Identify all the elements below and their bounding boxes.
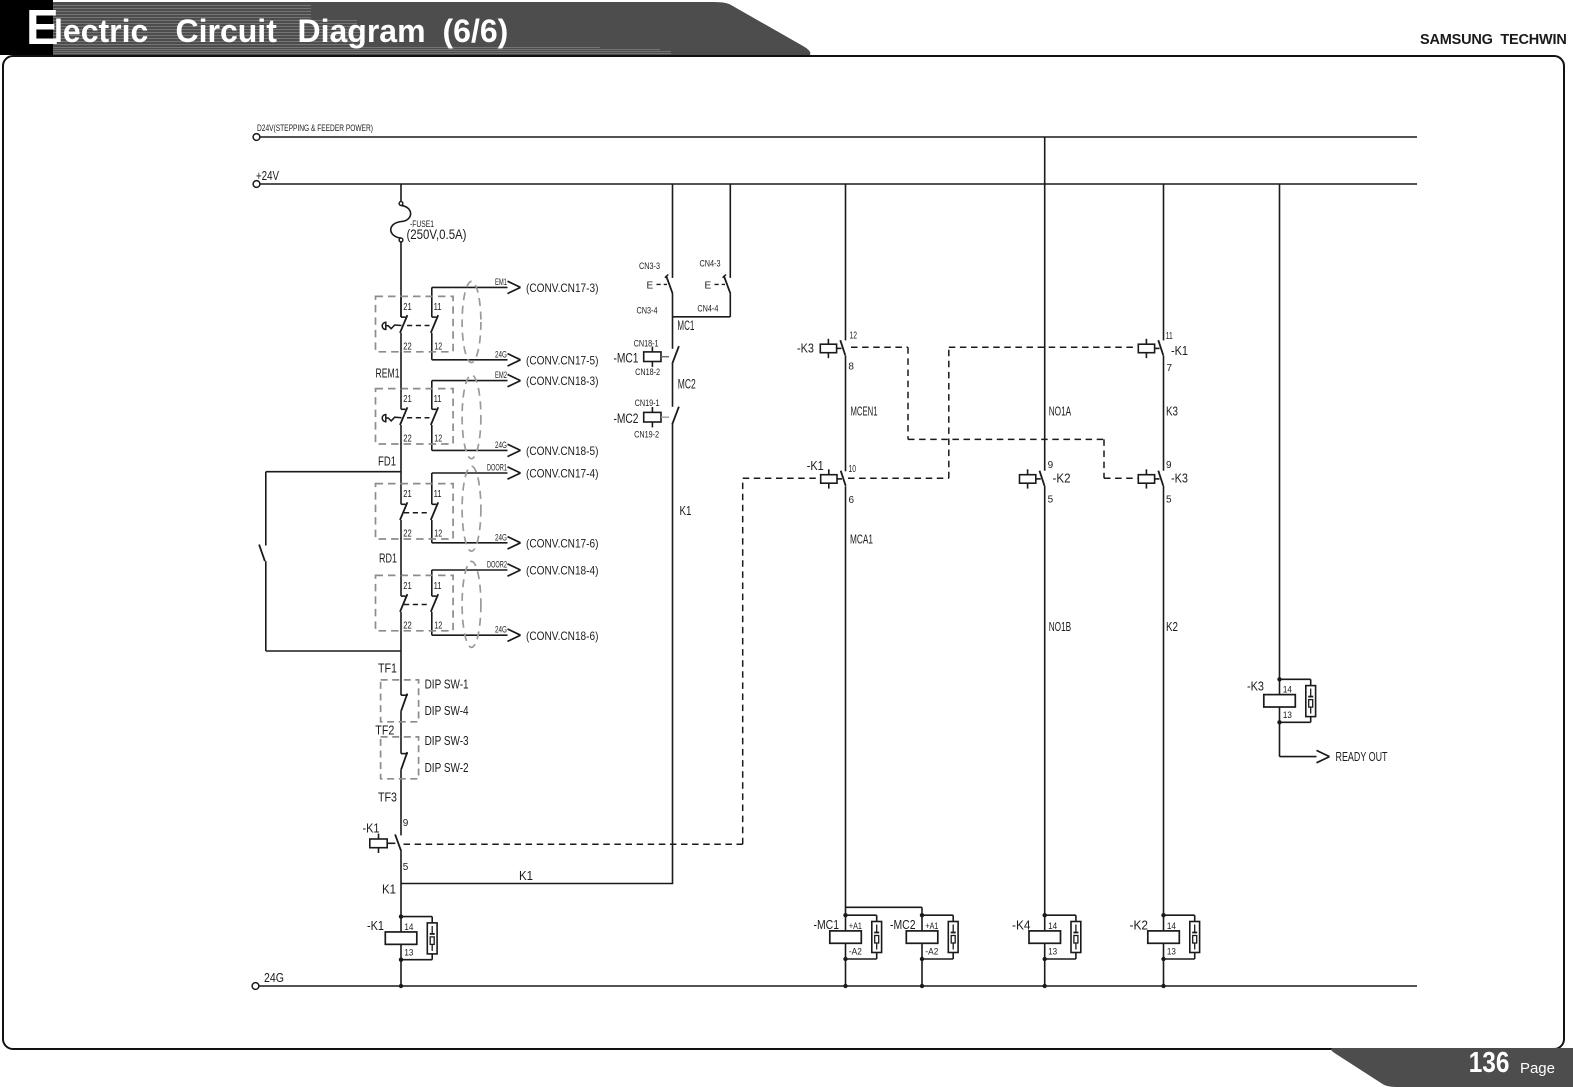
- svg-text:10: 10: [849, 464, 857, 475]
- label TF1: [378, 661, 397, 676]
- svg-text:(CONV.CN17-3): (CONV.CN17-3): [526, 281, 599, 295]
- net 24G label: [264, 970, 284, 985]
- svg-text:11: 11: [434, 394, 442, 405]
- connector target label (CONV.CN18-3): [526, 374, 599, 388]
- svg-text:E: E: [647, 281, 654, 292]
- LED indicator of K1: [401, 917, 437, 960]
- svg-text:-K1: -K1: [807, 458, 824, 473]
- relay coil MC2: [906, 913, 938, 961]
- svg-text:CN4-3: CN4-3: [700, 259, 721, 269]
- wire signal EM1: [432, 286, 508, 288]
- LED indicator of K3: [1280, 679, 1316, 722]
- signal name 24G label: [495, 532, 507, 542]
- label CN18-1: [634, 338, 659, 348]
- wire MC2 coil to 24G: [920, 959, 924, 988]
- pin 11 label: [434, 302, 442, 313]
- enclosure dashed box TF1 DIP: [381, 680, 419, 722]
- fuse FUSE1 ref label: [410, 219, 434, 229]
- wire TF block to DIP SW: [400, 631, 402, 695]
- svg-text:D24V(STEPPING & FEEDER POWER): D24V(STEPPING & FEEDER POWER): [257, 123, 373, 133]
- signal name DOOR2 label: [487, 560, 507, 570]
- pin -A2 label: [925, 947, 938, 957]
- wire MC1 coil to 24G: [843, 959, 847, 988]
- wire signal 24G: [432, 542, 508, 544]
- wire signal EM2: [432, 380, 508, 382]
- signal name EM1 label: [495, 277, 507, 287]
- switch DIP SW-1/4 (TF1): [401, 694, 408, 737]
- svg-text:K1: K1: [519, 868, 533, 883]
- wire +24V to K3 coil: [1279, 184, 1281, 679]
- wire K1 coil to 24G: [399, 960, 403, 989]
- pin 7 label: [1167, 363, 1173, 374]
- pin 22 label: [403, 529, 412, 540]
- svg-text:CN3-3: CN3-3: [639, 261, 660, 271]
- svg-text:14: 14: [1048, 921, 1057, 931]
- svg-text:-K2: -K2: [1130, 918, 1149, 933]
- actuator plunger of REM1: [382, 322, 401, 329]
- wire K2 coil to 24G: [1161, 959, 1165, 988]
- dashed actuator link CN3: [657, 283, 668, 285]
- pin 21 label: [403, 394, 412, 405]
- svg-text:24G: 24G: [264, 970, 284, 985]
- wire +24V to -K1 aux(11-7): [1163, 184, 1165, 340]
- svg-text:9: 9: [403, 818, 409, 829]
- svg-text:TF2: TF2: [375, 723, 394, 738]
- signal name 24G label: [495, 625, 507, 635]
- wire FD1 to RD1: [400, 443, 402, 483]
- contact -MC2 NC with coil box (CN19-1/CN19-2): [644, 407, 679, 428]
- wire K1 tie: [401, 883, 673, 885]
- pin 11 label: [434, 394, 442, 405]
- svg-text:DIP SW-3: DIP SW-3: [425, 734, 469, 748]
- svg-text:13: 13: [404, 948, 413, 958]
- signal name 24G label: [495, 440, 507, 450]
- relay contact -K1 aux (11-7): [1138, 339, 1163, 358]
- wire bypass top: [266, 472, 401, 546]
- wire K2 segment: [1163, 486, 1165, 915]
- net +24V label: [256, 168, 279, 183]
- pin 21 label: [403, 302, 412, 313]
- svg-text:-MC1: -MC1: [814, 917, 840, 932]
- svg-text:EM2: EM2: [495, 370, 507, 380]
- svg-text:(CONV.CN17-4): (CONV.CN17-4): [526, 467, 599, 481]
- svg-text:7: 7: [1167, 363, 1173, 374]
- svg-text:READY OUT: READY OUT: [1336, 749, 1388, 764]
- arrow to (CONV.CN17-4): [508, 467, 521, 479]
- net 24G terminal: [252, 983, 259, 990]
- net +24V terminal: [253, 181, 260, 188]
- svg-text:(CONV.CN18-6): (CONV.CN18-6): [526, 629, 599, 643]
- label CN3-4: [637, 306, 658, 316]
- svg-text:12: 12: [434, 341, 442, 352]
- wire REM1 to FD1: [400, 352, 402, 389]
- svg-text:K1: K1: [382, 882, 396, 897]
- label MC2: [678, 377, 696, 392]
- label K2: [1166, 619, 1178, 634]
- wire +24V to -K3 aux: [845, 184, 847, 340]
- relay contact -K2 aux (9-5): [1020, 469, 1045, 488]
- pin 9 label (K3): [1166, 460, 1172, 471]
- pin 9 label (K2): [1048, 460, 1054, 471]
- wire MC2 segment: [672, 364, 674, 407]
- relay contact -K3 aux (12-8): [820, 339, 845, 358]
- arrow to (CONV.CN18-5): [508, 444, 521, 456]
- connector target label (CONV.CN18-6): [526, 629, 599, 643]
- svg-text:5: 5: [1048, 494, 1054, 505]
- arrow to (CONV.CN18-6): [508, 629, 521, 641]
- connector target label (CONV.CN17-6): [526, 536, 599, 550]
- wire link MC1 coil to MC2 coil: [846, 907, 923, 915]
- LED indicator of MC2: [922, 915, 958, 959]
- mechanical link dashed of FD1: [407, 417, 430, 419]
- svg-text:11: 11: [434, 489, 442, 500]
- pin 12 label: [434, 529, 442, 540]
- svg-text:22: 22: [403, 620, 412, 631]
- switch CN4-3/CN4-4 emergency contact: [723, 275, 731, 294]
- pin 10 label: [849, 464, 857, 475]
- contact FD1 right (11-12) NC switch: [431, 381, 438, 451]
- wire bypass bottom: [266, 561, 401, 651]
- pin 14 label: [1283, 685, 1292, 695]
- svg-text:TF3: TF3: [378, 789, 397, 804]
- wire D24V to NO1A: [1044, 137, 1046, 471]
- svg-text:K2: K2: [1166, 619, 1178, 634]
- LED indicator of MC1: [846, 915, 882, 959]
- svg-text:9: 9: [1166, 460, 1172, 471]
- svg-text:+24V: +24V: [256, 168, 279, 183]
- svg-text:CN19-2: CN19-2: [634, 430, 659, 440]
- svg-text:14: 14: [404, 922, 413, 932]
- label -K3: [1247, 679, 1264, 694]
- contact REM1 left (21-22) NC switch: [400, 296, 407, 351]
- dashed interlock from -K1 contact to -K1 aux: [404, 478, 820, 844]
- svg-text:DOOR1: DOOR1: [487, 463, 507, 473]
- svg-text:-MC2: -MC2: [890, 917, 916, 932]
- svg-text:CN4-4: CN4-4: [697, 304, 718, 314]
- label TF2: [375, 723, 394, 738]
- svg-text:K3: K3: [1166, 403, 1178, 418]
- svg-text:(CONV.CN18-3): (CONV.CN18-3): [526, 374, 599, 388]
- svg-text:(CONV.CN18-4): (CONV.CN18-4): [526, 564, 599, 578]
- arrow to (CONV.CN17-3): [508, 281, 521, 293]
- LED indicator of K4: [1045, 915, 1081, 959]
- pin 13 label: [1167, 947, 1176, 957]
- signal name DOOR1 label: [487, 463, 507, 473]
- pin 8 label: [848, 362, 854, 373]
- pin 11 label: [1166, 331, 1173, 342]
- label FD1: [378, 454, 396, 469]
- relay coil MC1: [830, 913, 862, 961]
- label CN18-2: [635, 367, 660, 377]
- label CN19-2: [634, 430, 659, 440]
- svg-text:CN19-1: CN19-1: [635, 398, 660, 408]
- pin 22 label: [403, 434, 412, 445]
- label DIP SW-2: [425, 761, 469, 775]
- svg-text:DIP SW-1: DIP SW-1: [425, 677, 469, 691]
- svg-text:DIP SW-2: DIP SW-2: [425, 761, 469, 775]
- label MC1: [677, 318, 694, 333]
- label CN3-3: [639, 261, 660, 271]
- wire CN4-4 down and join: [673, 294, 731, 317]
- svg-text:(CONV.CN17-5): (CONV.CN17-5): [526, 353, 599, 367]
- label K1 left of coil: [382, 882, 396, 897]
- pin 12 label: [434, 434, 442, 445]
- svg-text:6: 6: [849, 495, 855, 506]
- label -K2: [1130, 918, 1149, 933]
- svg-text:EM1: EM1: [495, 277, 507, 287]
- label -K3 (aux on K2): [1171, 470, 1188, 485]
- switch CN3-3/CN3-4 emergency contact: [665, 275, 673, 294]
- svg-text:(CONV.CN18-5): (CONV.CN18-5): [526, 444, 599, 458]
- arrow to (CONV.CN18-4): [508, 564, 521, 576]
- relay contact -K1 aux (10-6): [821, 469, 846, 488]
- svg-text:13: 13: [1283, 710, 1292, 720]
- svg-text:9: 9: [1048, 460, 1054, 471]
- svg-text:+A1: +A1: [849, 921, 862, 931]
- label CN4-4: [697, 304, 718, 314]
- pin 5 label (K3): [1166, 494, 1172, 505]
- net +24V rail wire: [260, 183, 1417, 185]
- pin +A1 label: [849, 921, 862, 931]
- svg-text:24G: 24G: [495, 532, 507, 542]
- label -K4: [1012, 918, 1031, 933]
- svg-text:11: 11: [1166, 331, 1173, 342]
- pin 13 label: [1048, 947, 1057, 957]
- label CN19-1: [635, 398, 660, 408]
- label -MC1: [814, 917, 840, 932]
- wire +24V to CN4-3: [729, 184, 731, 278]
- wire K4 coil to 24G: [1043, 959, 1047, 988]
- net 24G rail wire: [259, 985, 1417, 987]
- pin 11 label: [434, 489, 442, 500]
- svg-text:-K3: -K3: [1247, 679, 1264, 694]
- enclosure dashed box of RD1: [376, 484, 454, 539]
- relay coil K1: [385, 914, 417, 962]
- signal name 24G label: [495, 349, 507, 359]
- label -K3 (aux on MCEN1): [797, 341, 814, 356]
- svg-text:E: E: [705, 281, 712, 292]
- net D24V label: [257, 123, 373, 133]
- wire NO1B: [1044, 486, 1046, 915]
- cable bundle ellipse 4: [462, 561, 481, 647]
- svg-text:MC2: MC2: [678, 377, 696, 392]
- connector target label (CONV.CN18-4): [526, 564, 599, 578]
- svg-text:13: 13: [1167, 947, 1176, 957]
- mechanical link dashed of TF-door: [404, 604, 430, 606]
- svg-text:NO1A: NO1A: [1049, 403, 1072, 418]
- pin 11 label: [434, 581, 442, 592]
- svg-text:21: 21: [403, 489, 412, 500]
- svg-text:K1: K1: [680, 503, 692, 518]
- mechanical link dashed of REM1: [407, 325, 430, 327]
- relay contact -K1 (9-5): [370, 834, 401, 853]
- svg-text:-K3: -K3: [1171, 470, 1188, 485]
- label -K1 (aux on K3): [1171, 343, 1188, 358]
- svg-text:+A1: +A1: [925, 921, 938, 931]
- svg-text:CN18-2: CN18-2: [635, 367, 660, 377]
- cable bundle ellipse 1: [462, 281, 481, 362]
- svg-text:-MC2: -MC2: [614, 411, 639, 426]
- label DIP SW-1: [425, 677, 469, 691]
- wire CN3-4 down: [672, 294, 674, 317]
- enclosure dashed box of TF-door: [376, 575, 454, 630]
- svg-text:12: 12: [850, 331, 858, 342]
- label DIP SW-4: [425, 704, 469, 718]
- net D24V terminal: [253, 134, 260, 141]
- pin 14 label: [404, 922, 413, 932]
- pin 9 label: [403, 818, 409, 829]
- svg-text:22: 22: [403, 341, 412, 352]
- black E box: [0, 0, 53, 55]
- svg-text:12: 12: [434, 620, 442, 631]
- relay coil K2: [1148, 913, 1180, 961]
- label MCA1: [850, 532, 873, 547]
- switch DIP SW-3/2 (TF2): [401, 737, 408, 836]
- contact -MC1 NC with coil box (CN18-1/CN18-2): [644, 346, 679, 367]
- svg-text:(250V,0.5A): (250V,0.5A): [407, 227, 467, 242]
- contact TF-door left (21-22) NC switch: [400, 575, 407, 630]
- wire -K1 contact to K1 node: [400, 851, 402, 916]
- pin 22 label: [403, 341, 412, 352]
- dashed interlock K3 to K3: [851, 347, 1138, 478]
- label E (CN4): [705, 281, 712, 292]
- relay contact -K3 aux (9-5): [1138, 469, 1163, 488]
- label K3: [1166, 403, 1178, 418]
- wire +24V to FUSE1: [400, 184, 402, 202]
- pin 22 label: [403, 620, 412, 631]
- label NO1A: [1049, 403, 1072, 418]
- connector target label (CONV.CN17-3): [526, 281, 599, 295]
- pin 5 label (K2): [1048, 494, 1054, 505]
- svg-text:14: 14: [1167, 921, 1176, 931]
- svg-text:12: 12: [434, 529, 442, 540]
- svg-text:RD1: RD1: [379, 551, 397, 566]
- svg-text:MC1: MC1: [677, 318, 694, 333]
- svg-text:21: 21: [403, 302, 412, 313]
- pin 13 label: [1283, 710, 1292, 720]
- svg-text:-A2: -A2: [925, 947, 938, 957]
- svg-text:DOOR2: DOOR2: [487, 560, 507, 570]
- wire FUSE1 to REM1 block: [400, 242, 402, 317]
- contact RD1 right (11-12) NC switch: [431, 473, 438, 543]
- svg-text:5: 5: [403, 862, 409, 873]
- pin +A1 label: [925, 921, 938, 931]
- contact REM1 right (11-12) NC switch: [431, 287, 438, 359]
- enclosure dashed box of REM1: [376, 296, 454, 351]
- svg-text:13: 13: [1048, 947, 1057, 957]
- connector target label (CONV.CN18-5): [526, 444, 599, 458]
- svg-text:NO1B: NO1B: [1049, 619, 1072, 634]
- wire K3 segment: [1163, 356, 1165, 471]
- label RD1: [379, 551, 397, 566]
- label -MC2: [614, 411, 639, 426]
- SAMSUNG TECHWIN logo text: [1420, 32, 1567, 48]
- actuator plunger of FD1: [382, 415, 401, 422]
- svg-text:-A2: -A2: [849, 947, 862, 957]
- label -MC1: [614, 351, 639, 366]
- arrow to (CONV.CN17-6): [508, 537, 521, 549]
- wire signal DOOR1: [432, 472, 508, 474]
- connector target label (CONV.CN17-4): [526, 467, 599, 481]
- fuse FUSE1 value label (250V,0.5A): [407, 227, 467, 242]
- pin -A2 label: [849, 947, 862, 957]
- pin 12 label: [434, 620, 442, 631]
- wire signal 24G: [432, 634, 508, 636]
- label E (CN3): [647, 281, 654, 292]
- net D24V rail wire: [260, 136, 1417, 138]
- label -K2 (aux on NO1A): [1053, 470, 1071, 485]
- cable bundle ellipse 2: [462, 375, 481, 459]
- svg-text:(CONV.CN17-6): (CONV.CN17-6): [526, 536, 599, 550]
- svg-text:24G: 24G: [495, 440, 507, 450]
- wire signal DOOR2: [432, 569, 508, 571]
- wire K1 vertical: [672, 424, 674, 883]
- wire MC1 segment: [672, 317, 674, 349]
- header banner: [0, 2, 816, 55]
- enclosure dashed box TF2 DIP: [381, 737, 419, 779]
- svg-text:-K1: -K1: [1171, 343, 1188, 358]
- contact RD1 left (21-22) NC switch: [400, 484, 407, 539]
- LED indicator of K2: [1164, 915, 1200, 959]
- wire signal 24G: [432, 359, 508, 361]
- title words: [54, 15, 148, 47]
- arrow to (CONV.CN17-5): [508, 354, 521, 366]
- relay coil K4: [1029, 913, 1061, 961]
- dashed interlock K1 to K1: [848, 347, 1138, 478]
- label TF3: [378, 789, 397, 804]
- svg-text:12: 12: [434, 434, 442, 445]
- svg-text:-K3: -K3: [797, 341, 814, 356]
- label -K1 (aux on MCA1): [807, 458, 824, 473]
- wire MCA1: [845, 486, 847, 916]
- svg-text:CN3-4: CN3-4: [637, 306, 658, 316]
- arrow to (CONV.CN18-3): [508, 374, 521, 386]
- svg-text:11: 11: [434, 581, 442, 592]
- label DIP SW-3: [425, 734, 469, 748]
- svg-text:24G: 24G: [495, 625, 507, 635]
- svg-text:5: 5: [1166, 494, 1172, 505]
- label READY OUT: [1336, 749, 1388, 764]
- pin 14 label: [1048, 921, 1057, 931]
- svg-text:-K4: -K4: [1012, 918, 1031, 933]
- svg-text:21: 21: [403, 394, 412, 405]
- enclosure dashed box of FD1: [376, 389, 454, 444]
- pin 12 label: [434, 341, 442, 352]
- svg-text:MCA1: MCA1: [850, 532, 873, 547]
- label NO1B: [1049, 619, 1072, 634]
- fuse FUSE1: [391, 202, 411, 242]
- label -K1 (lower left contact): [363, 821, 380, 836]
- wire RD1 to TF block: [400, 538, 402, 575]
- label K1 on tie: [519, 868, 533, 883]
- svg-text:-K2: -K2: [1053, 470, 1071, 485]
- pin 14 label: [1167, 921, 1176, 931]
- svg-text:FD1: FD1: [378, 454, 396, 469]
- cable bundle ellipse 3: [462, 466, 481, 551]
- svg-text:REM1: REM1: [376, 366, 400, 381]
- svg-text:24G: 24G: [495, 349, 507, 359]
- svg-text:DIP SW-4: DIP SW-4: [425, 704, 469, 718]
- pin 21 label: [403, 489, 412, 500]
- svg-text:MCEN1: MCEN1: [851, 403, 878, 418]
- wire K3 coil to READY OUT: [1280, 722, 1317, 756]
- wire MCEN1: [845, 356, 847, 472]
- connector target label (CONV.CN17-5): [526, 353, 599, 367]
- pin 13 label: [404, 948, 413, 958]
- svg-text:22: 22: [403, 529, 412, 540]
- contact TF-door right (11-12) NC switch: [431, 570, 438, 635]
- switch bypass NO contact: [259, 545, 265, 562]
